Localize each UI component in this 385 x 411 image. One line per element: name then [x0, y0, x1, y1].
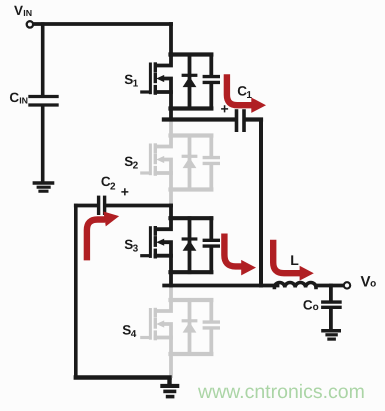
svg-text:L: L — [290, 252, 299, 268]
svg-text:1: 1 — [133, 79, 139, 90]
svg-text:+: + — [121, 184, 129, 200]
svg-text:o: o — [313, 302, 319, 313]
svg-text:C: C — [9, 90, 19, 105]
svg-text:C: C — [303, 298, 313, 313]
svg-text:V: V — [361, 274, 371, 291]
svg-text:3: 3 — [133, 243, 139, 254]
svg-text:www.cntronics.com: www.cntronics.com — [197, 381, 365, 403]
svg-text:4: 4 — [131, 329, 137, 340]
svg-text:IN: IN — [23, 8, 32, 18]
svg-text:V: V — [14, 3, 23, 18]
svg-text:2: 2 — [110, 181, 116, 192]
svg-text:+: + — [221, 101, 229, 117]
svg-text:IN: IN — [19, 95, 28, 105]
svg-text:o: o — [370, 279, 376, 290]
svg-text:2: 2 — [133, 161, 139, 172]
svg-text:1: 1 — [246, 90, 252, 101]
